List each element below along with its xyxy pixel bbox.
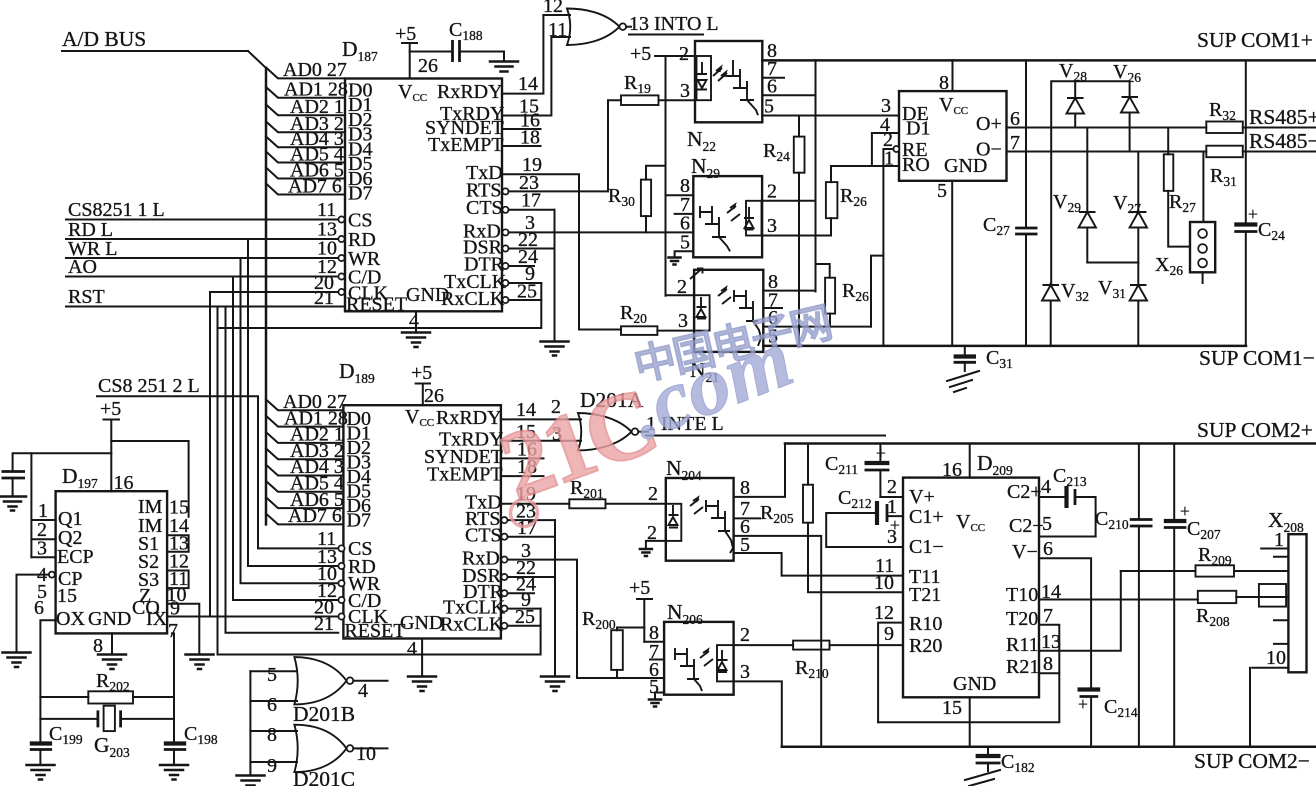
- wire R10 pin12 tie: [878, 623, 903, 723]
- svg-text:15: 15: [942, 697, 962, 719]
- wire D1 GND pin5 to rail: [951, 181, 953, 346]
- svg-text:4: 4: [1041, 476, 1051, 498]
- wire N204 pin7 stub: [734, 517, 760, 519]
- wire R200 bottom to RxD line: [616, 670, 618, 678]
- svg-text:RxRDY: RxRDY: [437, 81, 503, 103]
- pin numbers D187 right: [517, 73, 542, 303]
- svg-text:8: 8: [740, 477, 750, 499]
- svg-text:16: 16: [114, 472, 134, 494]
- svg-text:2: 2: [740, 624, 750, 646]
- svg-text:R11: R11: [1006, 634, 1039, 656]
- wire R11 pin13 to R209: [1039, 571, 1121, 651]
- connector X26: [1155, 222, 1215, 283]
- opto N206 body: [664, 622, 734, 695]
- wire R210 to D209 R20: [830, 644, 904, 646]
- wire D pin4: [872, 133, 899, 166]
- wire cap to ground: [12, 479, 14, 496]
- svg-text:R20: R20: [909, 635, 942, 657]
- svg-text:CS8 251 2 L: CS8 251 2 L: [98, 375, 200, 397]
- resistor R30: [608, 180, 651, 217]
- resistor R209: [1196, 544, 1235, 577]
- svg-text:14: 14: [518, 73, 538, 95]
- wire OX pin6: [40, 620, 55, 741]
- pin names D197 right: [132, 496, 163, 619]
- wire TxCLK pin9: [509, 282, 542, 284]
- wire gate inputs bracket to ground: [249, 671, 251, 775]
- capacitor C188: [449, 19, 483, 62]
- crystal G203: [40, 706, 174, 760]
- svg-text:CTS: CTS: [465, 525, 502, 547]
- wire pin16 stub: [501, 457, 544, 459]
- wire R10/R21 tie bottom: [878, 673, 1059, 722]
- wire RxD pin3 to N29: [509, 231, 694, 233]
- wire TxD D189 to R201: [501, 503, 569, 505]
- diode V26: [1113, 61, 1141, 152]
- opto N21 body: [694, 270, 763, 352]
- svg-text:3: 3: [887, 526, 897, 548]
- IC D197 body: [56, 491, 168, 633]
- svg-text:D1: D1: [906, 118, 930, 140]
- opto N29 body: [693, 176, 762, 257]
- wire N206 pin3 to rail2-: [734, 681, 782, 746]
- resistor R26 lower: [825, 278, 869, 314]
- wire N206 pin8 from +5: [644, 641, 664, 643]
- wire pin1 Q1: [31, 519, 55, 521]
- svg-text:9: 9: [267, 755, 277, 777]
- ground slanted at C182: [965, 770, 1000, 786]
- svg-text:RO: RO: [902, 154, 930, 176]
- svg-text:GND: GND: [88, 608, 131, 630]
- wire D201C input 9: [250, 761, 297, 763]
- wire T20 pin7 down: [1039, 625, 1059, 674]
- svg-text:SUP COM1−: SUP COM1−: [1199, 346, 1315, 370]
- wire R19 to N22 pin3: [659, 99, 696, 101]
- pin 16 D209: [942, 444, 970, 482]
- wire N21 pin6 long: [763, 326, 871, 328]
- wire N29 pin2 to iso rail: [762, 200, 815, 202]
- connector X208: [1250, 508, 1307, 747]
- wire pin18 TxEMPT stub: [502, 145, 541, 147]
- wire N21 pin7 stub: [763, 307, 782, 309]
- svg-text:8: 8: [1043, 653, 1053, 675]
- ground small at N204: [640, 549, 652, 556]
- diode V27: [1113, 152, 1147, 263]
- wire CTS pin17: [509, 209, 555, 211]
- wire isolated Vcc vertical: [816, 60, 830, 291]
- wire V+ pin2: [880, 496, 903, 498]
- wire clock loop D187: [218, 283, 542, 328]
- wire R26a bottom: [830, 218, 832, 235]
- wire R201 to N204 pin2: [606, 503, 666, 505]
- wire RTS pin23: [509, 190, 608, 192]
- wire N204 pin6 to rail2-: [734, 536, 822, 747]
- svg-text:C2+: C2+: [1007, 481, 1042, 503]
- gate NOR (12,11 -> 13 INT0 L): [543, 9, 626, 46]
- wire pin3 ECP: [31, 556, 55, 558]
- pin circles D189 left: [338, 545, 344, 619]
- capacitor bypass at D197: [2, 472, 26, 479]
- pin names D187 right: [425, 81, 507, 310]
- wire N29 pin8 to +5: [666, 194, 694, 196]
- wire CTS pin17 D189: [508, 536, 556, 538]
- svg-text:2: 2: [679, 43, 689, 65]
- wire N206 pin5 to ground: [655, 693, 664, 700]
- wire N29 pin7 stub: [675, 213, 694, 215]
- wire RD to pin 13: [66, 238, 338, 240]
- power +5 at D187 pin 26: [395, 23, 417, 79]
- svg-text:T20: T20: [1006, 608, 1038, 630]
- wire TxCLK pin9 D189: [508, 608, 541, 610]
- resistor R19: [621, 72, 659, 105]
- gate D201B: [293, 657, 388, 726]
- svg-text:RxCLK: RxCLK: [440, 614, 504, 636]
- wire R202 right: [133, 696, 174, 698]
- resistor R20: [620, 302, 657, 335]
- IC D1 body: [899, 91, 1007, 181]
- wire R200 top to +5: [617, 628, 644, 631]
- wire R208 right to X208: [1236, 596, 1288, 598]
- svg-text:+: +: [1078, 694, 1088, 714]
- svg-text:RESET: RESET: [344, 620, 405, 642]
- wire RST bus vertical to D189 RESET: [226, 307, 339, 633]
- wire N22 pin5 to D1 DE: [762, 115, 899, 117]
- svg-text:C2−: C2−: [1009, 515, 1044, 537]
- ground at D197 bypass cap: [1, 497, 27, 511]
- power +5 at D197: [100, 398, 121, 491]
- wire RTS pin23 D189: [508, 519, 556, 521]
- wire CTS/DSR ground drop: [554, 210, 556, 341]
- wire RTS to R19: [608, 100, 621, 191]
- svg-text:10: 10: [356, 743, 376, 765]
- wire R24 top to DE line: [798, 116, 800, 137]
- wire DSR pin22: [509, 248, 555, 250]
- pin names D197 left: [56, 508, 94, 630]
- svg-text:R21: R21: [1006, 656, 1039, 678]
- wire WR to pin 10: [66, 257, 338, 259]
- opto N21 internals: [694, 288, 761, 346]
- svg-text:6: 6: [1043, 538, 1053, 560]
- wire X26 top to RS485-: [1202, 152, 1204, 223]
- pin D0..D7 labels D187: [348, 80, 372, 205]
- svg-text:GND: GND: [400, 612, 443, 634]
- pin numbers D197 left: [34, 500, 48, 619]
- resistor R31: [1206, 146, 1243, 189]
- svg-text:D7: D7: [348, 183, 372, 205]
- pin 8 D197 with ground: [93, 633, 126, 669]
- svg-text:5: 5: [937, 180, 947, 202]
- svg-text:5: 5: [267, 664, 277, 686]
- IC D187 body: [345, 79, 502, 312]
- svg-text:SUP COM1+: SUP COM1+: [1197, 28, 1313, 52]
- svg-text:2: 2: [648, 483, 658, 505]
- wire AO to pin 12 C/D: [66, 276, 338, 278]
- wire R209 right to X208: [1234, 570, 1288, 572]
- wire RST to pin 21 RESET: [66, 306, 345, 308]
- svg-text:CS8251 1 L: CS8251 1 L: [68, 199, 165, 221]
- wire O+ / RS485+ line: [1007, 127, 1316, 129]
- wire R20 to N21 pin3: [657, 330, 694, 332]
- wire DTR pin24 stub: [509, 265, 534, 267]
- wire pin14 to D201A: [501, 418, 581, 420]
- svg-text:AO: AO: [68, 256, 97, 278]
- power +5 at N206: [629, 577, 652, 642]
- wire N21 pin8 to iso vcc: [763, 290, 815, 292]
- wire pin16 SYNDET stub: [502, 128, 541, 130]
- diode V31: [1098, 263, 1147, 346]
- pin D0..D7 labels D189: [347, 408, 371, 532]
- svg-text:8: 8: [939, 72, 949, 94]
- wire CLK corner into pin 20: [210, 291, 338, 293]
- resistor R200: [582, 608, 623, 670]
- svg-text:2: 2: [887, 476, 897, 498]
- svg-text:AD7 6: AD7 6: [288, 175, 342, 197]
- opto N204 body: [666, 478, 734, 561]
- wire TxD pin19 down: [502, 174, 579, 329]
- svg-text:CO: CO: [132, 597, 160, 619]
- wire clock rail vertical (TxC/RxC loops): [217, 307, 219, 655]
- wire N204 lower pin to ground: [646, 541, 666, 549]
- wire TxD to R20: [579, 329, 621, 331]
- svg-text:RS485−: RS485−: [1249, 129, 1316, 153]
- resistor R210: [793, 641, 829, 681]
- resistor R27: [1164, 128, 1196, 247]
- wire A/D bus spine vertical: [265, 68, 268, 524]
- svg-text:15: 15: [57, 585, 77, 607]
- svg-text:2: 2: [677, 276, 687, 298]
- pin circles D187 left: [338, 216, 344, 295]
- svg-text:C1+: C1+: [909, 506, 944, 528]
- wire C188 to ground: [461, 52, 505, 62]
- resistor R26 upper: [826, 182, 867, 218]
- resistor R208: [1196, 591, 1236, 629]
- svg-text:6: 6: [267, 694, 277, 716]
- wire RxCLK pin25 D189: [508, 625, 541, 627]
- rail SUP COM1-: [763, 345, 1246, 348]
- wire DTR pin24 stub D189: [508, 592, 535, 594]
- svg-text:GND: GND: [953, 673, 996, 695]
- gate D201C: [293, 725, 388, 786]
- opto N21 arrow mark: [690, 269, 703, 280]
- wire A/D bus horizontal: [62, 50, 248, 52]
- node 13 INT0 L output: [626, 13, 719, 35]
- svg-text:3: 3: [678, 310, 688, 332]
- pin 4 D189 with ground: [407, 638, 436, 691]
- wire C212 to C1-: [826, 513, 903, 547]
- wire D201B input 5: [250, 670, 297, 672]
- wire +5 branch to IM15 pull: [111, 441, 188, 517]
- svg-text:3: 3: [740, 661, 750, 683]
- power +5 at N22: [630, 43, 695, 65]
- node 1 INTE L output: [638, 413, 885, 436]
- wire DSR pin22 D189: [508, 576, 556, 578]
- svg-text:D201B: D201B: [293, 702, 355, 726]
- svg-text:TxEMPT: TxEMPT: [427, 464, 503, 486]
- pin 7 IX drop: [168, 620, 178, 741]
- pin 4 D187 with ground: [402, 310, 430, 347]
- ground at gate inputs: [237, 776, 265, 786]
- capacitor C214 polarized: [1078, 690, 1138, 747]
- capacitor C182: [976, 747, 1035, 775]
- pin numbers D189 left: [314, 528, 337, 635]
- wire N206 pin7 stub: [650, 659, 664, 661]
- wire N29 pin3 to R26a: [762, 235, 831, 237]
- wire O- / RS485- line: [1007, 151, 1316, 153]
- wire N22 pin6 to iso rail: [762, 94, 815, 96]
- svg-text:4: 4: [407, 638, 417, 660]
- gate D201A (OR to INTE): [578, 388, 644, 450]
- wire RD bus vertical to D189 RD: [248, 239, 338, 566]
- wire A/D bus diagonal into spine: [248, 51, 266, 68]
- rail SUP COM2+: [785, 442, 1316, 445]
- wire R26a top to RO line: [830, 166, 832, 182]
- svg-text:RST: RST: [68, 286, 105, 308]
- svg-text:12: 12: [543, 0, 563, 17]
- wire R202 left: [40, 696, 88, 698]
- svg-text:3: 3: [767, 215, 777, 237]
- svg-text:10: 10: [1266, 647, 1286, 669]
- wire R26b bottom: [829, 314, 831, 327]
- wire N204 pin8 to rail2+: [734, 444, 785, 497]
- wire T10 pin14 to R208: [1039, 599, 1198, 601]
- svg-text:+5: +5: [630, 43, 651, 65]
- svg-text:4: 4: [358, 680, 368, 702]
- wire RO pin1: [831, 165, 899, 167]
- capacitor C207 polarized: [1164, 444, 1221, 747]
- wire N204 pin5 to T11: [734, 553, 903, 576]
- pin circles D189 right: [501, 517, 507, 629]
- capacitor C24 polarized: [1234, 60, 1285, 346]
- wire RxD pin3 D189 to N206: [508, 560, 665, 678]
- svg-text:17: 17: [521, 190, 541, 212]
- ground at CTS/DSR D187: [541, 342, 569, 356]
- svg-text:21: 21: [314, 287, 334, 309]
- wire AO bus vertical to D189 C/D: [233, 277, 338, 601]
- IC D189 body: [343, 405, 501, 638]
- ground at Z pin: [186, 655, 214, 670]
- opto N29 internals: [700, 201, 762, 252]
- wire +5 branch to bypass cap: [13, 453, 112, 470]
- svg-text:OX: OX: [56, 608, 85, 630]
- svg-text:26: 26: [424, 385, 444, 407]
- diode V32: [1042, 280, 1089, 346]
- svg-text:26: 26: [418, 55, 438, 77]
- ground at CTS/DSR D189: [541, 677, 569, 692]
- capacitor C31: [954, 346, 1013, 371]
- resistor R201: [569, 477, 605, 508]
- svg-text:3: 3: [680, 80, 690, 102]
- wire clock loop D189: [218, 609, 541, 655]
- svg-text:V+: V+: [909, 486, 935, 508]
- pin names D189 left: [344, 538, 405, 642]
- svg-text:D201C: D201C: [293, 767, 355, 786]
- capacitor C213: [1039, 465, 1096, 537]
- svg-text:O−: O−: [976, 139, 1002, 161]
- wire Q1/Q2/ECP bracket: [30, 453, 32, 557]
- wire pin15 TxRDY to NOR input: [502, 37, 551, 116]
- diode V28: [1059, 60, 1087, 128]
- resistor R32: [1206, 99, 1243, 133]
- svg-text:11: 11: [548, 19, 567, 41]
- svg-text:+5: +5: [395, 23, 416, 45]
- svg-text:RESET: RESET: [346, 294, 407, 316]
- pin 15 D209: [942, 697, 970, 747]
- wire C1+ pin1: [889, 515, 904, 517]
- capacitor C27: [983, 60, 1038, 346]
- wire V- pin6 to C214: [1039, 558, 1091, 688]
- wire AD fan D187 rows: [266, 68, 345, 195]
- svg-text:+5: +5: [629, 577, 650, 599]
- svg-text:7: 7: [1043, 605, 1053, 627]
- capacitor C210: [1095, 444, 1153, 747]
- wire pins14-13 strap: [167, 535, 189, 552]
- ground slanted at C31: [947, 371, 979, 392]
- svg-text:TxEMPT: TxEMPT: [428, 134, 504, 156]
- svg-text:13 INTO L: 13 INTO L: [629, 13, 719, 35]
- svg-text:5: 5: [764, 96, 774, 118]
- pin numbers D197 right: [167, 497, 190, 620]
- wire pin15 to D201A: [501, 440, 581, 442]
- svg-text:16: 16: [942, 459, 962, 481]
- wire D201B input 6: [250, 700, 297, 702]
- pin numbers D187 left: [314, 199, 337, 309]
- wire +5 vertical to N21 pin2: [666, 56, 695, 296]
- wire N22 pin7 stub: [762, 77, 784, 79]
- wire C2- pin5: [1039, 536, 1096, 538]
- resistor R205: [760, 444, 903, 593]
- svg-text:1: 1: [887, 496, 897, 518]
- pin numbers D189 right: [515, 399, 537, 628]
- capacitor C212: [838, 487, 900, 535]
- svg-text:A/D BUS: A/D BUS: [62, 27, 146, 51]
- wire +5 to C188: [410, 51, 452, 53]
- wire CLK bus vertical: [209, 292, 211, 617]
- svg-text:3: 3: [37, 538, 47, 560]
- svg-text:10: 10: [874, 572, 894, 594]
- wire D201C input 8: [250, 730, 297, 732]
- svg-text:8: 8: [267, 724, 277, 746]
- ground small at N206: [649, 700, 661, 707]
- svg-text:RS485+: RS485+: [1249, 105, 1316, 129]
- svg-text:2: 2: [767, 181, 777, 203]
- pin 8 D1: [939, 60, 953, 94]
- wire CTS/DSR ground drop D189: [554, 520, 556, 676]
- wire Z pin10 to ground: [167, 604, 199, 654]
- ground small at N29 pin5: [669, 258, 681, 265]
- capacitor C211 polarized: [825, 443, 889, 497]
- svg-text:5: 5: [680, 232, 690, 254]
- node A/D BUS label: [62, 27, 146, 51]
- svg-text:AD7 6: AD7 6: [288, 505, 342, 527]
- svg-text:CTS: CTS: [466, 197, 503, 219]
- wire AD fan D189 rows: [266, 400, 343, 525]
- opto N22 internals: [697, 56, 759, 115]
- wire pin14 RxRDY to NOR input: [502, 15, 543, 94]
- rail SUP COM2-: [782, 745, 1316, 748]
- svg-text:R10: R10: [909, 613, 942, 635]
- svg-text:T21: T21: [909, 584, 941, 606]
- IC D209 body: [903, 478, 1039, 698]
- wire R209 left: [1121, 570, 1196, 572]
- resistor R202: [88, 670, 133, 704]
- pin CP with bubble and ground: [3, 572, 55, 667]
- svg-text:9: 9: [884, 623, 894, 645]
- rail SUP COM1+: [762, 59, 1316, 62]
- capacitor C199: [27, 723, 83, 780]
- node AD0..AD7 labels D187: [283, 59, 348, 197]
- wire CO pin9 clock line to D189 CLK: [167, 616, 338, 618]
- svg-text:V−: V−: [1012, 541, 1038, 563]
- svg-text:+: +: [1248, 204, 1258, 224]
